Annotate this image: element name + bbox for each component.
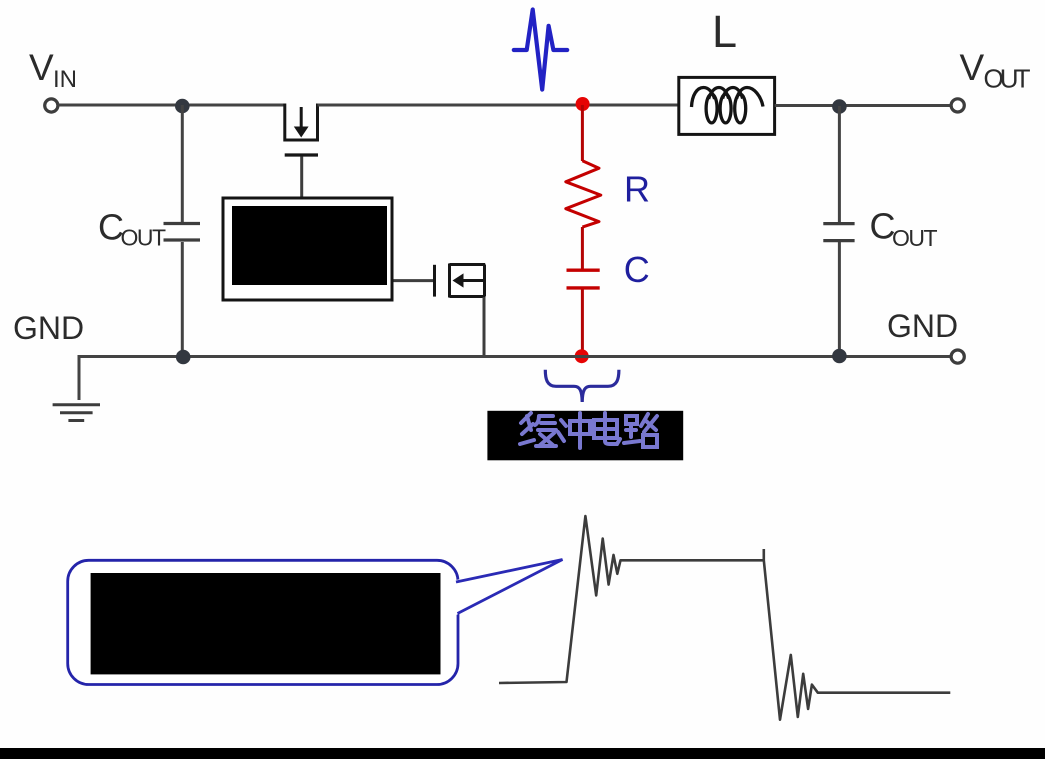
label COUT left bbox=[98, 207, 166, 251]
svg-text:OUT: OUT bbox=[121, 225, 167, 251]
glyph 电 bbox=[594, 413, 620, 444]
svg-text:V: V bbox=[960, 47, 985, 88]
svg-text:C: C bbox=[624, 249, 650, 290]
glyph 路 bbox=[624, 416, 640, 443]
label VIN bbox=[29, 47, 77, 93]
wire top rail left segment bbox=[58, 104, 285, 107]
wire Q2 source to ground rail bbox=[483, 297, 486, 356]
svg-text:GND: GND bbox=[13, 310, 84, 346]
wire top rail right segment bbox=[775, 104, 952, 107]
terminal VOUT bbox=[951, 99, 964, 112]
svg-text:GND: GND bbox=[887, 308, 958, 344]
capacitor COUT right bbox=[823, 224, 854, 241]
spike transient symbol bbox=[514, 10, 567, 90]
wire snubber upper leg bbox=[581, 105, 584, 161]
svg-text:OUT: OUT bbox=[984, 64, 1031, 94]
node ground left junction bbox=[176, 350, 191, 365]
label COUT right bbox=[870, 206, 938, 252]
wire left COUT upper leg bbox=[181, 105, 184, 222]
wire gate Q1 to controller bbox=[300, 157, 303, 199]
wire R to C bbox=[581, 227, 584, 269]
gate bar Q2 bbox=[433, 265, 436, 297]
wire controller output to Q2 gate bbox=[394, 279, 434, 282]
inductor L box bbox=[679, 77, 775, 134]
subtitle box bbox=[487, 411, 683, 461]
capacitor C (red) bbox=[567, 270, 600, 288]
svg-text:R: R bbox=[624, 169, 650, 210]
svg-text:L: L bbox=[712, 6, 737, 57]
wire left COUT lower leg bbox=[181, 242, 184, 356]
svg-text:IN: IN bbox=[53, 66, 77, 93]
node snubber ground (red) bbox=[575, 349, 589, 363]
wire top rail mid segment bbox=[318, 104, 679, 107]
waveform switch-node bbox=[499, 516, 950, 720]
node ground right junction bbox=[832, 349, 847, 364]
svg-text:V: V bbox=[29, 47, 54, 88]
transistor Q1 high-side MOSFET bbox=[283, 104, 319, 141]
terminal VIN bbox=[45, 99, 58, 112]
wire ground rail bbox=[79, 357, 951, 401]
node input junction bbox=[175, 99, 190, 114]
glyph 冲 bbox=[558, 420, 566, 441]
label VOUT bbox=[960, 47, 1031, 94]
channel bar Q2 bbox=[448, 264, 451, 298]
wire right COUT upper leg bbox=[838, 106, 841, 222]
inductor L coil bbox=[692, 88, 764, 123]
node switch (red) top bbox=[576, 97, 590, 111]
leads Q2 bbox=[450, 265, 486, 297]
gate bar Q1 bbox=[285, 153, 318, 156]
controller block (redacted) bbox=[223, 198, 392, 300]
speech bubble callout bbox=[68, 560, 458, 684]
capacitor COUT left bbox=[164, 224, 201, 241]
label snubber-circuit text (缓冲电路 approximated strokes) bbox=[520, 413, 657, 448]
node output junction bbox=[832, 99, 847, 114]
transistor Q2 low-side MOSFET bbox=[435, 264, 486, 298]
terminal GND right bbox=[951, 350, 964, 363]
resistor R (red zigzag) bbox=[566, 161, 601, 227]
svg-text:OUT: OUT bbox=[892, 225, 938, 251]
speech bubble content (redacted) bbox=[91, 573, 441, 674]
glyph 缓 bbox=[520, 413, 534, 444]
brace snubber bbox=[545, 370, 619, 402]
ground symbol bbox=[53, 405, 100, 421]
wire snubber lower leg bbox=[581, 290, 584, 357]
wire right COUT lower leg bbox=[838, 242, 841, 356]
bottom black bar bbox=[0, 748, 1045, 759]
